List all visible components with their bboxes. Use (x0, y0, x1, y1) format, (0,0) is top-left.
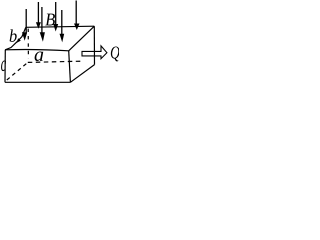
field arrow 2 head (36, 22, 41, 29)
wire: front face right edge (69, 51, 71, 83)
label B (45, 14, 55, 26)
wire: hidden back bottom edge (dashed) (28, 61, 82, 62)
wire: top-right receding edge (69, 26, 95, 51)
wire: back top edge (26, 26, 95, 27)
label b (10, 29, 17, 42)
background (0, 0, 119, 84)
wire: top-left receding edge (5, 27, 26, 50)
dimension arrowhead on receding edge near label b (16, 38, 20, 43)
wire: hidden bottom-left receding edge (dashed) (7, 64, 27, 81)
field arrow 2 shaft (37, 2, 39, 23)
label a (35, 51, 44, 61)
wire: front face top edge (5, 49, 68, 50)
field arrow 6 shaft (75, 1, 77, 25)
label Q (111, 46, 120, 61)
wire: front face left edge (4, 50, 6, 83)
field arrow 4 shaft (55, 2, 57, 25)
wire: back right edge (93, 26, 95, 64)
field arrow 1 head (22, 32, 27, 41)
wire: bottom-right receding edge (70, 65, 94, 83)
field arrow 3 head (40, 32, 45, 42)
label c (1, 61, 6, 72)
wire: hidden back-left vertical edge (dashed) (27, 29, 29, 59)
field arrow 4 head (53, 24, 58, 32)
field arrow 1 shaft (25, 9, 27, 33)
field arrow 3 shaft (41, 7, 43, 33)
field arrow 5 head (60, 34, 65, 43)
wire: front face bottom edge (5, 81, 71, 83)
field arrow 5 shaft (61, 10, 63, 34)
block arrow Q (outline) (82, 46, 107, 59)
field arrow 6 head (74, 24, 80, 31)
